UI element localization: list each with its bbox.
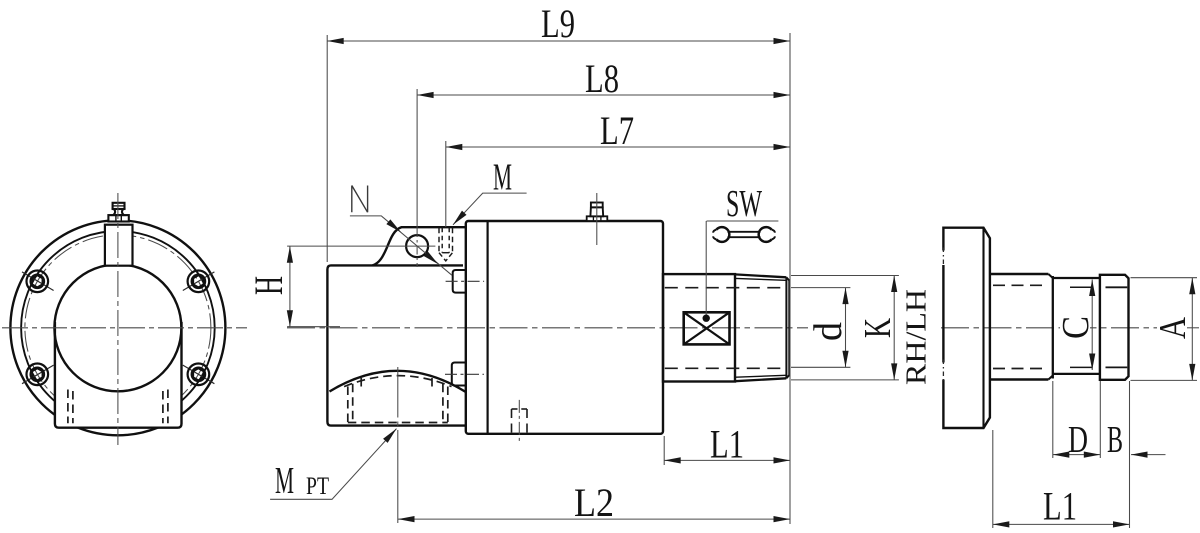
dimension H	[246, 246, 340, 327]
svg-text:L8: L8	[585, 56, 619, 101]
left view flange rim inner circle	[21, 231, 215, 425]
svg-text:SW: SW	[726, 183, 762, 225]
port hidden thread lines	[348, 378, 448, 423]
flange face bolt-circle marks	[942, 248, 946, 383]
grease fitting (left view)	[108, 203, 128, 222]
bolt hole lower-left	[22, 364, 54, 386]
hex shaft section	[663, 274, 735, 381]
dimension L8	[417, 56, 790, 101]
flange rim line	[982, 228, 984, 428]
flange disc	[943, 228, 990, 428]
dimension d	[791, 288, 850, 368]
top block (lug front view)	[105, 225, 133, 266]
bolt hole lower-right	[183, 364, 215, 386]
X-box diagonals	[684, 312, 730, 344]
svg-text:K: K	[857, 318, 899, 338]
label SW with wrench icon	[707, 183, 779, 242]
C section chamfer lines	[1070, 286, 1093, 288]
svg-text:H: H	[246, 276, 291, 295]
svg-text:L1: L1	[1043, 483, 1077, 528]
lug with N hole (side)	[373, 227, 466, 265]
dimension A	[1131, 278, 1198, 381]
dimension L9	[327, 1, 790, 46]
port centerline / L2 left extension	[397, 367, 399, 523]
svg-text:PT: PT	[306, 473, 329, 500]
hex flat hidden lines	[665, 287, 786, 289]
dimension B	[1107, 419, 1166, 461]
svg-text:L1: L1	[710, 422, 744, 467]
bolt hole upper-right	[183, 271, 215, 293]
svg-text:L2: L2	[574, 480, 614, 525]
upper boss centerline	[446, 280, 485, 282]
dimension D and B extension lines	[1053, 381, 1130, 528]
N hole circle	[406, 235, 428, 257]
port hidden thread arc	[344, 376, 451, 387]
svg-text:RH/LH: RH/LH	[902, 289, 933, 385]
grease fitting centerline	[596, 193, 598, 245]
svg-text:D: D	[1068, 419, 1088, 461]
svg-text:L9: L9	[541, 1, 575, 46]
svg-text:M: M	[275, 460, 294, 502]
N hole centerline dash-dot	[416, 228, 418, 267]
label M with leader	[451, 157, 527, 227]
SW leader line with dot	[705, 221, 707, 316]
bolt hole upper-left	[22, 271, 54, 293]
thread hidden lines (right view)	[993, 284, 1048, 286]
centerline right portion	[941, 327, 1157, 329]
svg-text:L7: L7	[600, 108, 634, 153]
small hole centerline	[518, 400, 520, 441]
dimension C	[1055, 280, 1097, 371]
dimension K	[791, 276, 899, 380]
label N (stick font) with leader	[350, 186, 452, 276]
svg-text:M: M	[493, 157, 512, 199]
dimension D	[1053, 419, 1101, 461]
lower boss centerline	[445, 373, 484, 375]
threaded cylinder section	[990, 274, 1053, 380]
N hole horizontal centerline + H top extension	[287, 245, 435, 247]
svg-text:B: B	[1107, 419, 1123, 461]
dimension L7	[446, 108, 790, 153]
left view big bore circle	[54, 264, 181, 391]
small hidden hole at body bottom	[512, 409, 528, 434]
C section	[1053, 278, 1100, 374]
dimension L1 (right view)	[993, 430, 1130, 528]
L7 extension / M hole centerline	[445, 141, 447, 227]
label M PT with leader	[270, 427, 399, 503]
upper boss plug on body left face	[453, 270, 466, 293]
svg-text:d: d	[805, 322, 850, 341]
left view horizontal centerline	[2, 327, 247, 329]
bottom port boss arc	[330, 371, 466, 392]
bolt circle centerline (dash-dot)	[25, 235, 211, 421]
main horizontal centerline	[287, 327, 808, 329]
hidden port thread lines in bracket	[68, 390, 168, 424]
tapered pipe thread	[735, 274, 789, 381]
B end collar	[1100, 275, 1129, 380]
centerline end dash	[1187, 327, 1199, 329]
wrench icon	[713, 227, 775, 242]
left view outer flange circle	[10, 220, 225, 435]
svg-text:A: A	[1152, 317, 1194, 339]
SW X-box marker	[684, 312, 730, 344]
lower boss plug on body left face	[452, 363, 466, 386]
dimension L2	[398, 480, 790, 525]
dimension L1 (middle)	[664, 422, 790, 467]
body internal flange line	[487, 221, 489, 434]
left view vertical centerline	[117, 193, 119, 445]
B collar chamfer lines	[1106, 286, 1128, 288]
main body block	[466, 221, 663, 434]
right extension line for L7 L8 L9 L1 L2	[789, 33, 791, 524]
svg-text:C: C	[1055, 316, 1097, 339]
bottom bracket (port boss)	[55, 322, 182, 428]
M threaded hole (hidden)	[439, 228, 453, 261]
grease fitting (top of body)	[587, 203, 608, 222]
left cylinder body	[327, 265, 465, 425]
L9 left extension	[326, 35, 328, 262]
L8 extension / N hole vertical centerline	[416, 89, 418, 228]
